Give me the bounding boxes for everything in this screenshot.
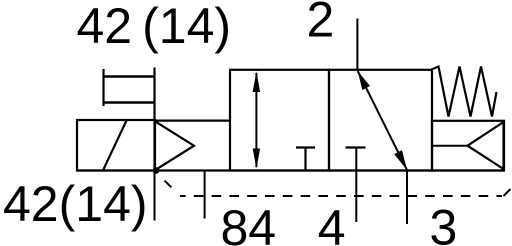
dashed pilot link diagonal bbox=[155, 171, 180, 196]
double arrow top head bbox=[253, 71, 260, 92]
blocked port T (left square) bbox=[296, 148, 315, 171]
flow double arrow (left square) shaft bbox=[255, 73, 257, 167]
solenoid coil box bbox=[77, 120, 155, 171]
manual override ladder: top rung bbox=[103, 75, 156, 77]
pilot 12 wire bbox=[154, 171, 156, 221]
port 2 wire bbox=[356, 19, 358, 70]
manual override ladder: bottom rung bbox=[103, 101, 156, 103]
dashed pilot link end tick bbox=[504, 189, 511, 196]
solenoid diagonal stroke bbox=[103, 121, 127, 171]
svg-text:42 (14): 42 (14) bbox=[77, 0, 232, 54]
svg-text:42(14): 42(14) bbox=[3, 176, 148, 232]
diagonal arrow top head bbox=[358, 71, 370, 90]
dashed pilot link horizontal bbox=[180, 195, 502, 197]
port 84 wire bbox=[204, 171, 206, 219]
svg-text:2: 2 bbox=[307, 0, 335, 48]
manual override ladder: right vertical bbox=[153, 68, 155, 122]
diagonal arrow bottom head bbox=[394, 150, 407, 170]
bottom rail wire bbox=[77, 169, 504, 171]
svg-text:4: 4 bbox=[318, 200, 346, 246]
diagonal flow arrow (right square) shaft bbox=[358, 71, 407, 170]
return spring bbox=[432, 67, 497, 117]
junction dot bbox=[153, 167, 160, 174]
manual override ladder: left vertical bbox=[102, 69, 104, 106]
port 4 wire (through blocked T stem) bbox=[355, 148, 357, 223]
port 3 wire bbox=[406, 171, 408, 225]
valve body right square bbox=[329, 70, 432, 171]
pneumatic return box bbox=[432, 121, 504, 171]
valve body left square bbox=[230, 70, 329, 171]
return triangle bbox=[468, 122, 504, 169]
svg-text:84: 84 bbox=[221, 200, 277, 246]
blocked port T (right square) bbox=[346, 146, 366, 148]
pilot triangle bbox=[155, 121, 195, 171]
svg-text:3: 3 bbox=[430, 200, 458, 246]
pilot channel top wire bbox=[155, 119, 231, 121]
return box mid wire bbox=[432, 145, 468, 147]
double arrow bottom head bbox=[253, 149, 260, 169]
